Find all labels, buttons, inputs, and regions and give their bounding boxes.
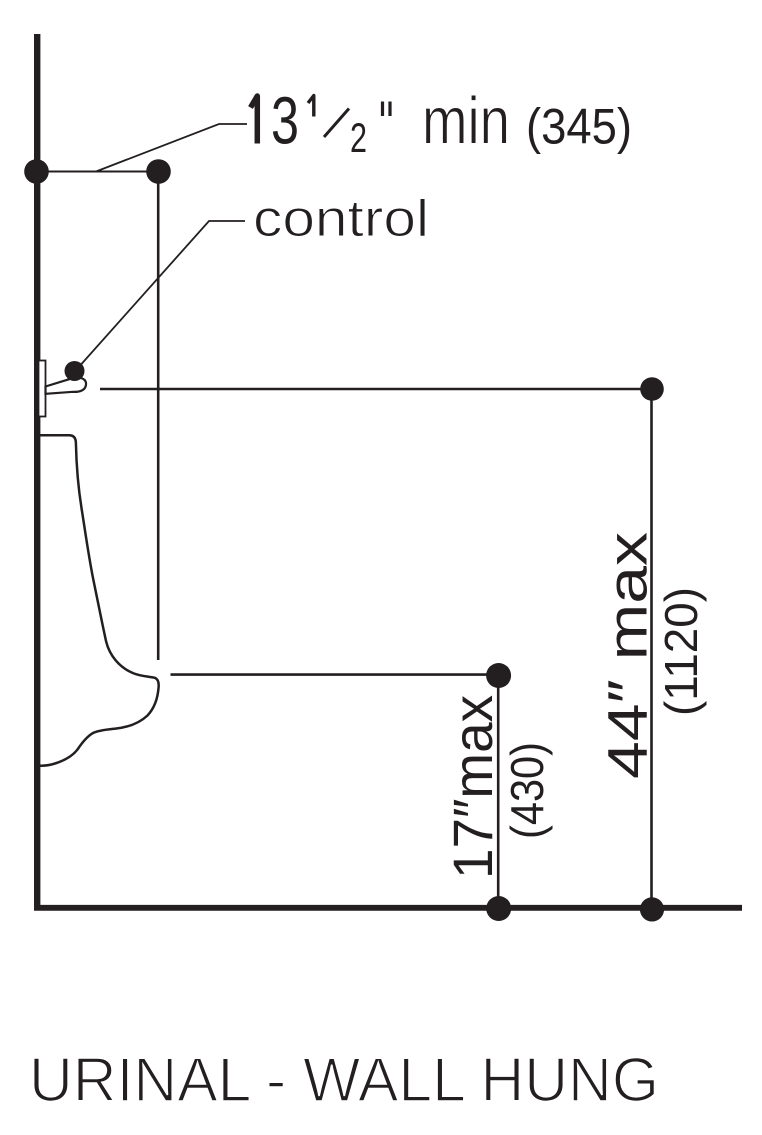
floor line	[34, 905, 742, 911]
wall line	[34, 34, 40, 910]
dot on wall for 13.5in dimension	[24, 159, 49, 184]
dot at floor of 44in dimension	[640, 897, 664, 921]
label 13	[251, 96, 258, 144]
svg-text:min: min	[422, 84, 510, 159]
leader line for 13.5in label	[96, 124, 247, 172]
dot at rim of 17in dimension	[486, 663, 511, 688]
dimension line 17in rim height horizontal	[171, 673, 499, 676]
dot at floor of 17in dimension	[486, 896, 511, 921]
dimension line 13.5in wall to lip	[40, 171, 158, 173]
svg-text:17″max: 17″max	[441, 695, 504, 879]
control dot	[65, 361, 85, 381]
flush valve body	[39, 361, 46, 417]
svg-text:control: control	[253, 190, 429, 248]
urinal profile	[37, 435, 159, 765]
svg-text:(345): (345)	[526, 99, 632, 155]
svg-text:(430): (430)	[501, 742, 553, 839]
fraction slash	[324, 109, 349, 138]
extension line from lip dot down to urinal lip	[157, 172, 160, 661]
dimension line 17in vertical	[497, 676, 500, 909]
svg-text:(1120): (1120)	[655, 587, 707, 716]
flush valve spout	[46, 378, 87, 394]
leader line for control label	[77, 221, 245, 369]
svg-text:44″ max: 44″ max	[596, 532, 659, 779]
svg-text:3: 3	[271, 84, 299, 159]
inch marks	[381, 102, 384, 117]
dimension line 44in vertical	[650, 389, 653, 908]
dot at lip for 13.5in dimension	[146, 159, 171, 184]
svg-text:URINAL - WALL HUNG: URINAL - WALL HUNG	[29, 1046, 659, 1115]
dimension line 44in height horizontal	[100, 388, 652, 391]
dot at top of 44in dimension	[640, 377, 664, 401]
fraction numerator 1	[308, 96, 314, 117]
svg-text:2: 2	[350, 114, 367, 161]
